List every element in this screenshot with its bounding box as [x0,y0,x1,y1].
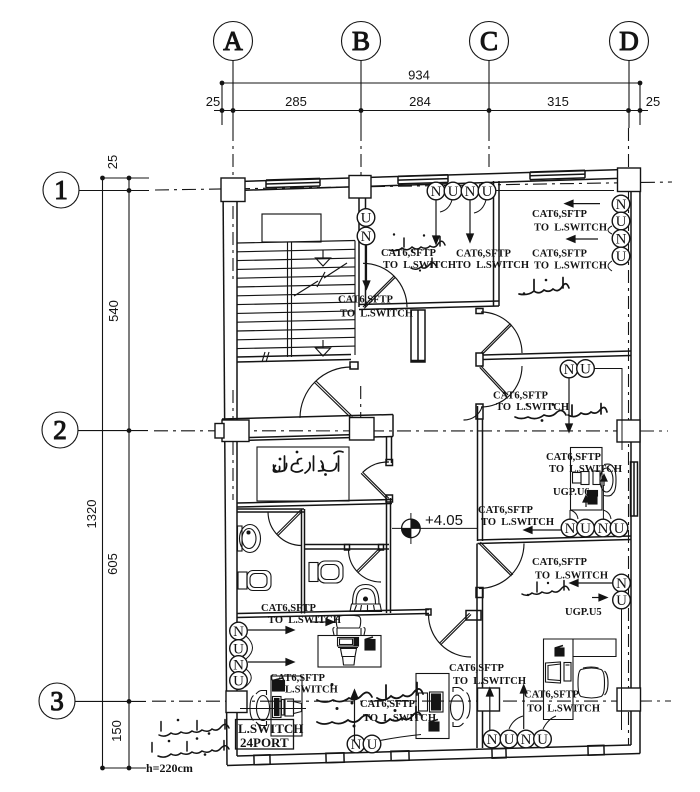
svg-text:315: 315 [547,94,569,109]
bottom wall pilaster 5 [588,745,604,755]
column B1 [349,176,371,199]
column D3 [617,688,641,711]
grid bubble 3 [39,683,75,719]
arrow up a7 [489,696,491,730]
grid line 3 horizontal [75,700,146,702]
grid stem C [488,61,490,129]
arrow down a2 [469,201,471,235]
stair treads [237,241,355,244]
outer wall left inner line [236,191,238,757]
column A3 [226,691,247,713]
WC middle room right wall [386,545,388,614]
room label financial unit line2 (edari o vaam) [317,707,422,728]
door WC left: leaf [278,512,302,536]
leader arc top group b [474,200,486,213]
leader arc U6 row b [603,510,611,519]
svg-text:TO L.SWITCH: TO L.SWITCH [456,260,529,271]
svg-text:540: 540 [106,300,121,322]
WC corridor wall vertical [301,509,303,614]
left dimension line segments [128,178,130,768]
stair bottom hatch [262,352,265,362]
svg-text:TO L.SWITCH: TO L.SWITCH [453,676,526,687]
arrow left a9 [573,203,600,205]
outlet circles right stack NUNU [612,195,630,213]
svg-text:L.SWITCH: L.SWITCH [285,685,338,696]
grid line 1 horizontal [79,190,149,192]
door WC left: arc [268,512,302,546]
bottom wall pilaster 3 [391,751,409,761]
svg-text:TO L.SWITCH: TO L.SWITCH [363,713,436,724]
arrow right a14 [248,661,286,663]
door hall lower: leaf [481,366,508,395]
cable line top to right stack [496,190,614,192]
svg-text:605: 605 [105,553,120,575]
arrow left a12 [578,582,612,584]
outlet circles stair wall UN [357,209,375,227]
leader arc right stack b [608,261,612,271]
svg-text:CAT6,SFTP: CAT6,SFTP [360,699,416,710]
arrow up a6 [354,698,356,741]
prayer room right wall [493,181,495,306]
leader arc left stack b [245,669,251,687]
desk UGP.U6 [571,448,617,511]
door post WC middle right [379,545,384,551]
stair right edge [354,241,356,356]
grid stem D [628,61,630,129]
toilet middle WC [309,561,343,583]
left dim bottom tick line [103,767,147,769]
pantry bottom wall [237,500,392,504]
stair right wall below B [358,198,360,307]
stair landing rect [262,214,321,242]
top dimension line segments [214,110,648,112]
dim dots top [220,81,225,86]
svg-text:TO L.SWITCH: TO L.SWITCH [268,615,341,626]
svg-text:C: C [480,26,498,56]
column A2 [222,420,249,442]
chief room left wall [476,544,478,749]
svg-text:25: 25 [105,155,120,169]
grid bubble B [342,22,381,61]
svg-text:TO L.SWITCH: TO L.SWITCH [527,704,600,715]
door hall lower: arc [481,366,522,407]
sink left WC [238,525,261,553]
housing room left wall [477,406,479,541]
svg-text:25: 25 [206,94,220,109]
svg-text:TO L.SWITCH: TO L.SWITCH [340,309,413,320]
note line2 (az no-e divari) [152,737,229,757]
svg-text:150: 150 [109,720,124,742]
door post pantry door bottom [386,495,393,502]
grid stem A [232,61,234,129]
door WC middle: arc [349,550,382,583]
stair arrow top [316,258,331,266]
window right wall [631,462,638,516]
housing room bottom wall [478,536,632,540]
arrow down a4 [568,378,570,424]
door post bath middle [476,353,483,366]
column B2 [350,418,375,441]
column C3 [478,688,500,711]
door housing room: arc [464,407,483,420]
outer wall left outer line [223,182,227,765]
duct shaft rect [411,310,425,362]
grid dash vertical D [628,128,630,168]
column D2 [617,420,640,442]
svg-text:CAT6,SFTP: CAT6,SFTP [456,249,512,260]
financial room top wall [237,610,429,614]
level marker +4.05 [392,512,477,544]
door post financial wall [426,609,431,615]
svg-text:TO L.SWITCH: TO L.SWITCH [534,223,607,234]
cable desk U6 down [602,485,604,519]
top dimension line 934 [222,82,640,84]
grid bubble A [214,22,253,61]
door post prayer wall [350,362,358,369]
svg-text:L.SWITCH: L.SWITCH [238,721,303,736]
door pantry: arc [363,462,390,473]
door prayer room: arc [363,263,407,307]
svg-text:CAT6,SFTP: CAT6,SFTP [524,690,580,701]
svg-text:TO L.SWITCH: TO L.SWITCH [481,517,554,528]
arrow right a13 [248,629,286,631]
pantry top wall band [222,415,393,420]
arrow up a8 [523,693,525,729]
svg-text:TO L.SWITCH: TO L.SWITCH [383,260,456,271]
door women WC upper: arc [481,312,522,353]
svg-text:D: D [619,26,639,56]
grid bubble 1 [43,172,79,208]
desk UGP.U5 [544,639,617,720]
desk financial left [240,676,306,736]
door chief room: leaf [479,544,512,577]
room label small arabic [411,258,436,272]
svg-text:CAT6,SFTP: CAT6,SFTP [261,603,317,614]
pantry right wall lower segment [386,498,388,545]
svg-text:TO L.SWITCH: TO L.SWITCH [534,261,607,272]
room label housing unit (vahed maskan) [515,403,607,422]
bottom wall pilaster 4 [492,748,506,758]
outer wall bottom outer line [227,754,640,766]
cable route U6 [594,369,622,451]
column A2 outer tab [215,424,224,439]
WC left room top wall [237,508,304,510]
pantry right wall upper segment [386,437,388,463]
prayer room bottom wall [359,301,499,305]
room label chief office (rais edare) [522,581,569,597]
svg-text:A: A [223,26,243,56]
svg-text:B: B [352,26,370,56]
door financial room: leaf [441,615,471,645]
room label financial unit line1 (vahed mali) [317,683,423,705]
leader arc chief bottom a [509,716,523,729]
outer wall top inner line [237,178,631,191]
arrow right a16 [310,621,326,623]
outer wall right outer line [639,169,641,754]
room label banovan (women) [519,278,569,295]
svg-text:CAT6,SFTP: CAT6,SFTP [478,505,534,516]
arrow down a1 [435,201,437,237]
rack L.SWITCH 24PORT box [236,720,294,750]
left dim top tick line [103,177,150,179]
door post chief lower [466,611,481,621]
outlet circles mid NU [560,360,578,378]
WC middle room top wall [305,544,390,546]
outlet circles left stack NUNU [230,622,248,640]
stair bottom wall [237,355,351,358]
extension line right [639,83,641,125]
stair stringer [287,242,289,357]
arrow up a5a [603,481,605,486]
outer wall right inner line [630,178,632,745]
stair arrow bottom [316,348,331,356]
sink middle WC half-round [350,585,382,612]
outer wall bottom inner line [237,745,631,756]
svg-text:CAT6,SFTP: CAT6,SFTP [493,391,549,402]
pantry counter [257,447,349,501]
grid bubble D [610,22,649,61]
door chief room: arc [479,544,524,589]
room label pantry (abdarkhane) [273,451,343,476]
column D1 [618,168,641,192]
svg-text:TO L.SWITCH: TO L.SWITCH [549,464,622,475]
window top wall B-C [398,175,448,184]
column A1 [221,178,245,202]
svg-text:1: 1 [54,175,68,205]
svg-text:TO L.SWITCH: TO L.SWITCH [535,571,608,582]
left dimension line total 1320 [102,178,104,768]
pantry band end cap [392,415,394,437]
arrow down a3 [366,246,368,282]
grid dash vertical B [360,128,362,175]
cable route U5 [621,609,623,730]
extension line left [221,83,223,125]
outlet circles chief bottom NUNU [483,730,501,748]
outlet circles U6 row NUNU [561,519,579,537]
door post bath upper [476,309,483,314]
door stair corridor: arc [300,367,351,418]
outlet circles bottom middle NU [347,735,365,753]
svg-text:934: 934 [408,68,430,83]
arrow left a10 [575,238,598,240]
grid dash vertical C [488,128,490,172]
arrow left a11 [532,529,562,531]
svg-text:CAT6,SFTP: CAT6,SFTP [338,295,394,306]
svg-text:+4.05: +4.05 [425,512,463,529]
svg-text:284: 284 [409,94,431,109]
grid line 2 horizontal [78,430,148,432]
door post chief upper [476,588,483,598]
grid bubble 2 [42,412,78,448]
door financial room: arc [429,615,472,658]
svg-text:UGP.U5: UGP.U5 [565,607,602,618]
svg-text:2: 2 [53,415,67,445]
pantry band inner line [249,435,349,438]
svg-text:CAT6,SFTP: CAT6,SFTP [532,249,588,260]
door post WC middle left [345,545,350,551]
grid stem B [360,61,362,129]
svg-text:CAT6,SFTP: CAT6,SFTP [546,452,602,463]
outer wall top outer line [222,169,640,182]
note line1 (nasb dar rack) [159,719,229,736]
toilet left WC [238,571,271,591]
svg-text:CAT6,SFTP: CAT6,SFTP [532,209,588,220]
stair direction diagonal [294,281,318,296]
door post housing top [476,404,483,419]
leader arc top group a [440,200,452,212]
svg-text:CAT6,SFTP: CAT6,SFTP [270,673,326,684]
dim dots left [100,176,105,181]
svg-text:285: 285 [285,94,307,109]
leader curve bottom middle [380,735,421,741]
desk middle room [318,615,381,667]
door WC middle: leaf [358,550,381,573]
chair middle room [336,615,360,628]
leader arc right stack a [608,226,612,234]
svg-text:h=220cm: h=220cm [146,761,193,775]
grid dash vertical A [232,128,234,280]
svg-text:1320: 1320 [84,500,99,529]
leader arc U6 row a [570,510,578,519]
bottom wall pilaster 2 [326,753,344,763]
svg-text:UGP.U6: UGP.U6 [553,487,590,498]
svg-text:CAT6,SFTP: CAT6,SFTP [532,557,588,568]
door stair corridor: leaf [315,383,352,418]
arrow right a15 [592,597,599,599]
svg-text:3: 3 [50,686,64,716]
door prayer room: leaf [363,276,394,307]
svg-text:24PORT: 24PORT [240,735,289,750]
outlet circles top group NUNU [427,182,445,200]
svg-text:25: 25 [646,94,660,109]
grid bubble C [470,22,509,61]
stair break tick [317,272,325,287]
desk financial right [416,674,470,739]
door women WC upper: leaf [481,324,511,354]
svg-text:CAT6,SFTP: CAT6,SFTP [449,663,505,674]
bottom wall pilaster 1 [254,755,270,765]
window top wall C-D [530,170,585,179]
outlet circles right lower NU [613,574,631,592]
window top wall A-B [266,178,320,187]
door pantry: leaf [363,472,390,499]
door post pantry door top [386,460,393,466]
women WC bottom wall [483,351,631,355]
leader arc left stack a [246,636,253,659]
room label prayer (namazkhane) [389,233,445,251]
leader arc chief bottom b [543,716,556,729]
arrow up a5b [585,502,587,507]
